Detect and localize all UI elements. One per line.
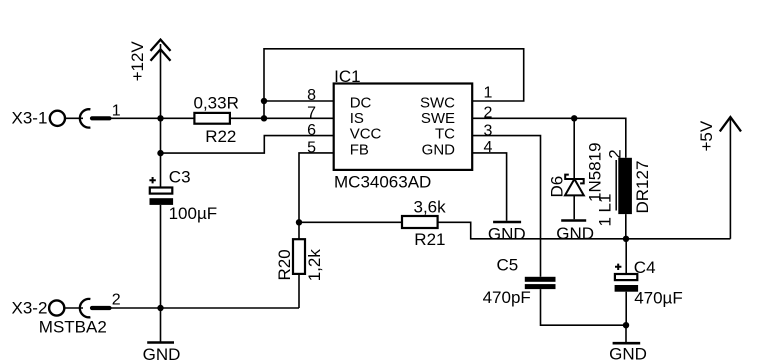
svg-text:1: 1 (596, 217, 615, 226)
svg-text:GND: GND (143, 345, 181, 361)
op-amp IC1 MC34063AD (307, 67, 492, 191)
svg-text:MC34063AD: MC34063AD (334, 172, 431, 191)
svg-text:FB: FB (350, 141, 369, 158)
svg-text:100µF: 100µF (169, 204, 218, 223)
wire C5 bottom to ground rail (541, 289, 627, 325)
svg-text:GND: GND (609, 345, 647, 361)
svg-text:GND: GND (422, 141, 456, 158)
svg-text:D6: D6 (547, 176, 566, 198)
ground IC pin4 (488, 222, 526, 243)
wire L1 bottom to rail (625, 214, 627, 239)
svg-text:X3-2: X3-2 (12, 299, 48, 318)
svg-text:R20: R20 (275, 249, 294, 280)
resistor R20 (275, 239, 324, 281)
svg-text:2: 2 (112, 292, 121, 309)
svg-text:R22: R22 (205, 127, 236, 146)
svg-text:GND: GND (556, 224, 594, 243)
capacitor C3 (149, 168, 217, 224)
svg-text:1,2k: 1,2k (305, 249, 324, 282)
wire top loop pin1 (264, 49, 524, 119)
node X3-2 junction (157, 305, 163, 311)
capacitor C4 (615, 239, 683, 325)
power +12V (128, 40, 171, 119)
wire R22 to IC pin7 (230, 117, 334, 119)
svg-text:3,6k: 3,6k (414, 198, 447, 217)
svg-text:SWC: SWC (420, 94, 455, 111)
svg-text:DR127: DR127 (633, 161, 652, 214)
svg-text:X3-1: X3-1 (12, 109, 48, 128)
svg-text:IC1: IC1 (334, 67, 360, 86)
wire main vertical to C3 (160, 118, 162, 187)
node output rail junction (623, 236, 629, 242)
node pin7 junction (261, 115, 267, 121)
node FB junction (296, 219, 302, 225)
wire FB row to R21 (299, 221, 402, 223)
svg-text:470pF: 470pF (483, 288, 531, 307)
svg-text:1N5819: 1N5819 (586, 142, 605, 202)
wire R21 to output rail (438, 222, 731, 239)
svg-text:MSTBA2: MSTBA2 (39, 318, 107, 337)
svg-text:L1: L1 (596, 194, 615, 213)
svg-text:GND: GND (488, 224, 526, 243)
ground right (609, 325, 647, 361)
ground D6 (556, 221, 594, 244)
connector X3-2 (12, 292, 121, 337)
wire IC pin6 (VCC) (161, 136, 334, 154)
svg-text:3: 3 (484, 122, 493, 139)
wire X3-1 to R22 (111, 117, 195, 119)
svg-text:+12V: +12V (128, 41, 147, 82)
ground left (143, 308, 181, 361)
svg-text:2: 2 (606, 149, 625, 158)
node VCC junction (157, 150, 163, 156)
wire IC pin4 (GND) (472, 153, 506, 221)
svg-text:8: 8 (307, 87, 316, 104)
resistor R21 (402, 198, 446, 250)
svg-text:470µF: 470µF (634, 289, 683, 308)
inductor L1 DR127 (596, 149, 653, 226)
node D6 junction (571, 115, 577, 121)
node +12V junction (157, 115, 163, 121)
node bottom ground junction (623, 322, 629, 328)
svg-text:C3: C3 (169, 168, 191, 187)
connector X3-1 (12, 103, 121, 128)
svg-text:IS: IS (350, 110, 364, 127)
resistor R22 (194, 93, 239, 145)
svg-text:SWE: SWE (421, 110, 455, 127)
diode D6 1N5819 (547, 118, 604, 219)
wire IC pin3 (TC) to C5 (472, 136, 540, 277)
svg-text:C5: C5 (497, 256, 519, 275)
power +5V (697, 117, 741, 239)
svg-text:C4: C4 (634, 258, 656, 277)
wire IC pin5 (FB) (299, 153, 334, 239)
svg-text:0,33R: 0,33R (194, 93, 239, 112)
svg-text:6: 6 (307, 122, 316, 139)
svg-text:+5V: +5V (697, 120, 716, 151)
svg-text:VCC: VCC (350, 126, 382, 143)
node pin8 junction (261, 98, 267, 104)
wire X3-2 row (111, 307, 299, 309)
wire R20 bottom to X3-2 row (298, 274, 300, 308)
svg-text:7: 7 (307, 105, 316, 122)
wire IC pin8 (264, 100, 334, 102)
svg-text:DC: DC (350, 94, 372, 111)
svg-text:1: 1 (112, 103, 121, 120)
wire C3 to X3-2 row (160, 205, 162, 308)
wire IC pin2 (SWE) to L1 (472, 118, 626, 158)
svg-text:R21: R21 (414, 230, 445, 249)
svg-text:5: 5 (307, 139, 316, 156)
svg-text:1: 1 (484, 85, 493, 102)
capacitor C5 (483, 256, 556, 307)
svg-text:TC: TC (435, 126, 455, 143)
